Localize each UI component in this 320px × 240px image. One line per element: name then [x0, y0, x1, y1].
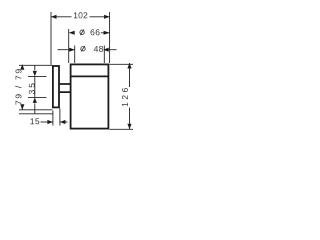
- extension line 102 left: [50, 12, 52, 65]
- extension line 35 bottom: [28, 96, 47, 98]
- arrowhead 79/79 bottom (down): [20, 104, 24, 110]
- arrowhead d48 right (outside, pointing left): [103, 48, 109, 52]
- extension line plate top left: [19, 64, 53, 66]
- wall plate (side view): [53, 66, 59, 107]
- arrowhead 126 top (up): [127, 63, 131, 69]
- label 66: [91, 29, 100, 35]
- label 15: [30, 118, 39, 124]
- extension line d48 left: [74, 46, 76, 64]
- extension line rim level for 35: [28, 75, 47, 77]
- dimension line 15 right tail: [60, 121, 68, 123]
- extension line cup top right for 126: [110, 63, 133, 65]
- extension line d66 left: [68, 29, 70, 63]
- extension line 15 right: [59, 108, 61, 125]
- dimension line d66 right tail: [101, 32, 110, 34]
- tumbler cup body: [71, 64, 109, 128]
- label d66 symbol: [80, 30, 84, 36]
- dimension line 79/79: [21, 65, 23, 110]
- arrowhead d66 left: [69, 31, 75, 35]
- arrowhead 102 right: [104, 15, 110, 19]
- label 102: [74, 12, 88, 18]
- cup rim line: [71, 75, 109, 77]
- arrowhead 102 left: [51, 15, 57, 19]
- dimension line d48 tails outside: [58, 49, 117, 51]
- label 126 rotated: [122, 88, 128, 106]
- label d48 symbol: [81, 46, 85, 52]
- extension line d48 right: [103, 46, 105, 64]
- label 35 rotated: [29, 83, 35, 94]
- extension line 15 left: [52, 111, 54, 126]
- arrowhead 15 left (outside, pointing right): [47, 120, 53, 124]
- extension line plate bottom left: [19, 109, 53, 111]
- dimension line 35: [34, 65, 36, 114]
- extension line second 79 below: [19, 113, 53, 115]
- arrowhead d48 left (outside, pointing right): [69, 48, 75, 52]
- dimension line 126: [129, 63, 131, 129]
- mounting arm: [60, 84, 71, 92]
- dimension line 102: [51, 16, 110, 18]
- arrowhead 35 bottom (outside, pointing up): [33, 97, 37, 103]
- extension line 102/d66 right: [109, 12, 111, 63]
- arrowhead 35 top (outside, pointing down): [33, 71, 37, 77]
- arrowhead d66 right: [104, 31, 110, 35]
- arrowhead 15 right (outside, pointing left): [60, 120, 66, 124]
- extension line cup bottom right for 126: [110, 128, 133, 130]
- arrowhead 79/79 top (up): [20, 64, 24, 70]
- arrowhead 126 bottom (down): [127, 124, 131, 130]
- dimension line 15 left tail: [41, 121, 53, 123]
- label 79/79 rotated: [15, 69, 21, 104]
- label 48: [94, 46, 103, 52]
